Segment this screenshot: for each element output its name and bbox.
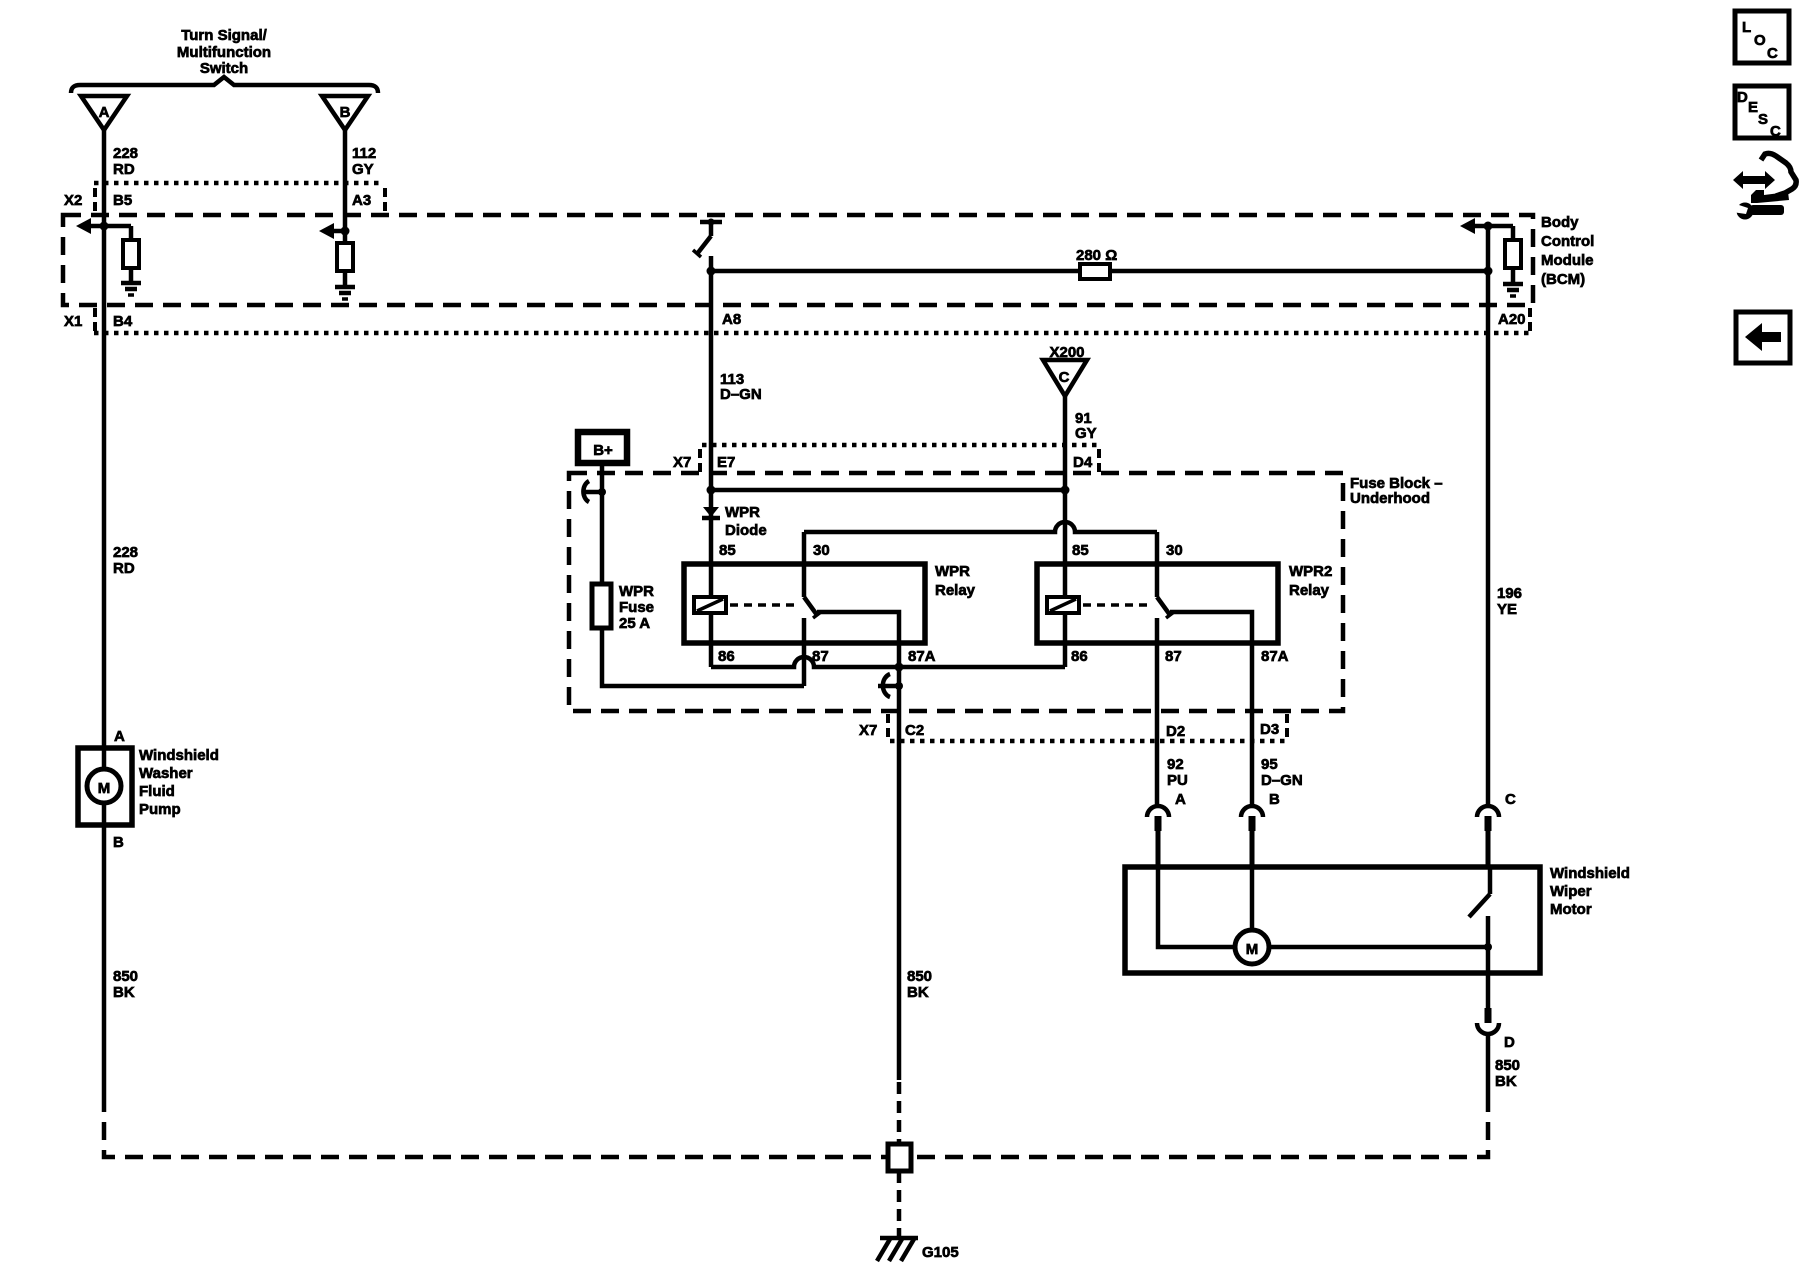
icon DESC	[1735, 86, 1789, 138]
relay1 pin 30 riser	[802, 532, 807, 597]
node E7 junction	[707, 486, 716, 495]
motor A wire inside	[1158, 867, 1235, 947]
icon troubleshooting arrows + wrench	[1732, 153, 1796, 219]
motor M	[1235, 930, 1269, 964]
svg-text:A3: A3	[352, 192, 371, 209]
connector B triangle	[322, 96, 368, 130]
svg-text:280 Ω: 280 Ω	[1076, 247, 1117, 264]
resistor (A3 pull-down)	[337, 243, 353, 271]
svg-text:YE: YE	[1497, 601, 1517, 618]
svg-text:D–GN: D–GN	[720, 386, 762, 403]
svg-text:PU: PU	[1167, 772, 1188, 789]
motor D wire	[1486, 947, 1491, 1008]
svg-text:B: B	[113, 834, 124, 851]
wire 91 GY (X200 to D4)	[1063, 396, 1068, 597]
wire relay1-30 to relay2-30 with hop	[804, 522, 1157, 532]
svg-text:Multifunction: Multifunction	[177, 44, 271, 61]
svg-text:BK: BK	[113, 984, 135, 1001]
brace over switch connectors	[71, 77, 378, 93]
svg-text:A: A	[99, 104, 110, 121]
relay1 87A contact wire	[817, 612, 899, 1080]
svg-text:A8: A8	[722, 311, 741, 328]
svg-text:X1: X1	[64, 313, 82, 330]
svg-text:Fuse: Fuse	[619, 599, 654, 616]
svg-text:M: M	[98, 780, 111, 797]
svg-text:(BCM): (BCM)	[1541, 271, 1585, 288]
wire 113 D-GN (A8 to E7)	[709, 271, 714, 597]
resistor (A20)	[1511, 226, 1516, 240]
svg-text:D: D	[1737, 89, 1748, 106]
icon LOC	[1735, 11, 1789, 63]
svg-text:X2: X2	[64, 192, 82, 209]
wire 850 BK (motor D)	[1486, 1034, 1491, 1094]
wire 228 RD from switch A	[102, 130, 107, 770]
svg-text:GY: GY	[352, 161, 374, 178]
B+ feed box	[578, 432, 627, 463]
svg-text:30: 30	[1166, 542, 1183, 559]
relay2 pin 86 wire	[1063, 613, 1068, 667]
svg-text:A20: A20	[1498, 311, 1526, 328]
svg-text:WPR2: WPR2	[1289, 563, 1332, 580]
svg-text:850: 850	[113, 968, 138, 985]
relay1 switch blade	[804, 597, 817, 615]
svg-text:C: C	[1767, 45, 1778, 62]
svg-text:B: B	[340, 104, 351, 121]
relay 1 WPR Relay box	[684, 564, 925, 643]
svg-text:L: L	[1742, 19, 1751, 36]
relay2 87A contact wire (95 D-GN to motor B)	[1170, 612, 1252, 805]
BCM internal rail wire	[711, 269, 1080, 274]
node D4 junction	[1061, 486, 1070, 495]
ground (B5 resistor)	[121, 281, 141, 286]
svg-text:G105: G105	[922, 1244, 959, 1261]
svg-text:228: 228	[113, 145, 138, 162]
svg-text:Windshield: Windshield	[1550, 865, 1630, 882]
svg-text:Underhood: Underhood	[1350, 490, 1430, 507]
svg-text:86: 86	[1071, 648, 1088, 665]
svg-text:BK: BK	[1495, 1073, 1517, 1090]
svg-text:BK: BK	[907, 984, 929, 1001]
BCM input A3: arrow	[319, 223, 334, 239]
motor park switch	[1488, 867, 1493, 894]
svg-text:C: C	[1770, 123, 1781, 140]
connector X1 divider tick	[93, 308, 97, 331]
svg-text:B4: B4	[113, 313, 133, 330]
connector A20 divider tick	[1528, 308, 1532, 331]
connector A3 divider tick	[383, 188, 387, 211]
Fuse Block - Underhood dashed box	[569, 473, 1343, 711]
svg-text:85: 85	[719, 542, 736, 559]
svg-text:E: E	[1748, 99, 1758, 116]
connector row X7/C2 D2 D3 dotted line	[890, 739, 1288, 744]
svg-text:228: 228	[113, 544, 138, 561]
svg-text:Washer: Washer	[139, 765, 193, 782]
in-line connector symbol on C2 wire	[883, 674, 890, 697]
svg-text:30: 30	[813, 542, 830, 559]
svg-text:D: D	[1504, 1034, 1515, 1051]
svg-text:D3: D3	[1260, 721, 1279, 738]
motor connector D	[1485, 1008, 1492, 1023]
resistor 280 ohm	[1080, 264, 1110, 279]
svg-text:Body: Body	[1541, 214, 1579, 231]
svg-text:A: A	[114, 728, 125, 745]
connector A triangle	[81, 96, 127, 130]
relay2 pin 87 wire (92 PU to motor A)	[1155, 618, 1160, 805]
svg-text:RD: RD	[113, 161, 135, 178]
svg-text:87A: 87A	[908, 648, 936, 665]
relay1 coil	[694, 597, 726, 613]
resistor (B5 pull-down)	[129, 226, 134, 240]
relay 2 WPR2 Relay box	[1037, 564, 1278, 643]
relay1 pin 86 wire	[709, 613, 714, 667]
motor connector C	[1477, 806, 1499, 817]
icon back arrow	[1736, 312, 1790, 363]
svg-text:Relay: Relay	[935, 582, 976, 599]
svg-text:B+: B+	[593, 442, 613, 459]
wire 112 GY from switch B	[343, 130, 348, 243]
svg-text:C: C	[1505, 791, 1516, 808]
BCM input A20: arrow	[1460, 218, 1475, 234]
svg-text:WPR: WPR	[619, 583, 654, 600]
svg-text:WPR: WPR	[935, 563, 970, 580]
svg-text:S: S	[1758, 111, 1768, 128]
svg-text:D2: D2	[1166, 723, 1185, 740]
connector D4 divider tick	[1097, 449, 1101, 472]
motor connector A	[1147, 806, 1169, 817]
svg-text:D4: D4	[1073, 454, 1093, 471]
svg-text:850: 850	[1495, 1057, 1520, 1074]
svg-text:Control: Control	[1541, 233, 1594, 250]
relay2 coil	[1047, 597, 1079, 613]
svg-text:A: A	[1175, 791, 1186, 808]
WPR diode	[703, 507, 719, 517]
relay2 switch blade	[1157, 597, 1170, 615]
svg-text:Relay: Relay	[1289, 582, 1330, 599]
svg-text:X7: X7	[673, 454, 691, 471]
svg-text:25 A: 25 A	[619, 615, 650, 632]
svg-text:Diode: Diode	[725, 522, 767, 539]
svg-text:C: C	[1059, 369, 1070, 386]
node A20 junction	[1484, 222, 1493, 231]
connector row X2 dotted line	[94, 181, 383, 186]
wire E7 to D4	[711, 488, 1065, 493]
ground node wire 86/87A/86 with hop over 87	[711, 657, 1065, 667]
svg-text:GY: GY	[1075, 425, 1097, 442]
motor wire M to park switch	[1269, 945, 1488, 950]
svg-text:O: O	[1754, 32, 1766, 49]
splice	[888, 1144, 911, 1171]
svg-text:X7: X7	[859, 722, 877, 739]
node: B5 wire junction	[100, 222, 109, 231]
svg-text:WPR: WPR	[725, 504, 760, 521]
svg-text:Turn Signal/: Turn Signal/	[181, 27, 267, 44]
connector X7 divider tick	[698, 449, 702, 472]
wire rail to A20	[1110, 269, 1488, 274]
svg-text:Fluid: Fluid	[139, 783, 175, 800]
node: A3 wire junction	[341, 227, 350, 236]
BCM output driver switch (A8)	[700, 220, 722, 225]
svg-text:M: M	[1246, 941, 1259, 958]
svg-text:87A: 87A	[1261, 648, 1289, 665]
motor B wire inside	[1250, 867, 1255, 930]
ground (A20 resistor)	[1503, 282, 1523, 287]
Windshield Wiper Motor box	[1125, 867, 1540, 973]
connector row X1 dotted line	[94, 331, 1533, 336]
svg-text:Motor: Motor	[1550, 901, 1592, 918]
bottom 850 BK bus dashed	[104, 1094, 887, 1157]
connector X200 triangle C	[1043, 360, 1087, 396]
svg-text:Wiper: Wiper	[1550, 883, 1592, 900]
svg-text:Windshield: Windshield	[139, 747, 219, 764]
connector C2 divider tick	[886, 714, 890, 737]
svg-text:95: 95	[1261, 756, 1278, 773]
svg-text:RD: RD	[113, 560, 135, 577]
wire 196 YE (A20 to motor C)	[1486, 271, 1491, 805]
in-line connector symbol on B+ wire	[583, 481, 589, 502]
ground G105	[880, 1236, 918, 1241]
relay2 pin 30 riser	[1155, 532, 1160, 597]
fuse WPR 25A	[592, 584, 611, 628]
svg-text:92: 92	[1167, 756, 1184, 773]
node A8 rail junction	[707, 267, 716, 276]
svg-text:87: 87	[1165, 648, 1182, 665]
svg-text:Module: Module	[1541, 252, 1594, 269]
connector row X7/E7/D4 dotted line	[702, 443, 1097, 448]
svg-text:85: 85	[1072, 542, 1089, 559]
svg-text:86: 86	[718, 648, 735, 665]
svg-text:Pump: Pump	[139, 801, 181, 818]
wire fuse to relay 87	[602, 628, 804, 686]
ground (A3 resistor)	[335, 285, 355, 290]
svg-text:B5: B5	[113, 192, 132, 209]
svg-text:B: B	[1269, 791, 1280, 808]
wire B+ to fuse	[600, 463, 605, 584]
BCM input B5: arrow	[76, 218, 91, 234]
connector D3 divider tick	[1285, 714, 1289, 737]
connector X2 divider tick	[93, 188, 97, 211]
svg-text:850: 850	[907, 968, 932, 985]
Turn Signal / Multifunction Switch label	[177, 27, 271, 77]
svg-text:112: 112	[352, 145, 376, 162]
svg-text:C2: C2	[905, 722, 924, 739]
Body Control Module (BCM) dashed box	[63, 215, 1533, 305]
motor connector B	[1241, 806, 1263, 817]
svg-text:D–GN: D–GN	[1261, 772, 1303, 789]
svg-text:196: 196	[1497, 585, 1522, 602]
relay1 pin 87 wire	[802, 618, 807, 686]
wire 850 BK (pump B)	[102, 802, 107, 1094]
svg-text:E7: E7	[717, 454, 735, 471]
